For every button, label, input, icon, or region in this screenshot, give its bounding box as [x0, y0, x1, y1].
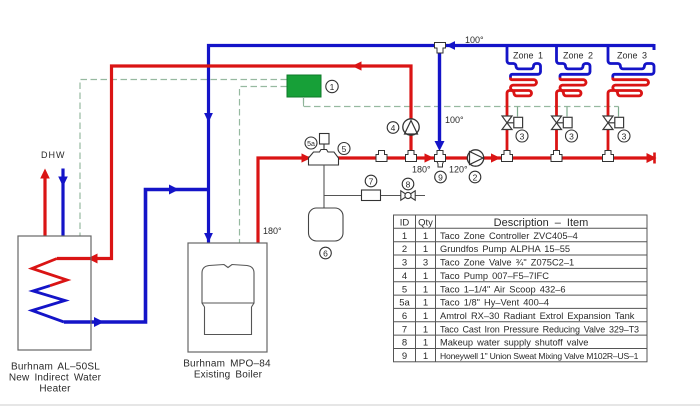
svg-text:Makeup water supply shutoff va: Makeup water supply shutoff valve — [440, 338, 588, 348]
pipe: zone 3 blue drop and coil (blue half) — [608, 44, 654, 78]
pipe: blue drop to mixing valve (100 deg) — [438, 47, 441, 143]
pipe: DHW hot out (red) — [43, 177, 46, 236]
pipe: zone 2 coil (red half) and drop to valve — [557, 78, 587, 157]
svg-text:5: 5 — [402, 284, 407, 295]
svg-text:6: 6 — [402, 311, 407, 322]
svg-text:Zone 1: Zone 1 — [513, 51, 543, 61]
device: air scoop U5 — [309, 150, 339, 166]
svg-text:9: 9 — [438, 172, 443, 182]
valve: zone valve 1 body — [502, 116, 523, 130]
wire: controller to boiler (dashed green) — [240, 87, 288, 244]
arrow: right out of indirect tank — [94, 317, 104, 327]
vessel: boiler section interior — [202, 265, 254, 335]
arrow: left into indirect tank — [88, 254, 98, 264]
callout: circled 2 — [469, 171, 481, 183]
svg-text:Taco Cast Iron Pressure Reduci: Taco Cast Iron Pressure Reducing Valve 3… — [440, 324, 639, 334]
arrow: DHW cold down — [58, 177, 68, 187]
pipe: DHW cold in (blue) — [61, 169, 64, 237]
pipe: red supply main from boiler (180 deg) — [258, 158, 655, 243]
svg-text:1: 1 — [423, 298, 428, 309]
wire: controller to indirect heater sensor (dashed green) — [80, 80, 287, 237]
fitting: zone 3 tee on supply main — [603, 151, 614, 162]
svg-text:1: 1 — [423, 231, 428, 242]
arrow: right into air scoop — [302, 153, 312, 162]
svg-text:1: 1 — [423, 284, 428, 295]
svg-text:1: 1 — [423, 338, 428, 349]
callout: circled 9 — [435, 171, 447, 183]
callout: circled 1 — [326, 80, 338, 92]
pipe: zone 2 blue drop and coil (blue half) — [557, 44, 591, 78]
fitting: union tee on supply main (left) — [376, 151, 387, 162]
pipe: zone 3 coil (red half) and drop to valve — [608, 78, 649, 157]
fitting: zone 2 tee on supply main — [551, 151, 562, 162]
callout: circled 3 (zone 3) — [618, 130, 630, 142]
pipe: blue return main (100 deg) along top — [209, 46, 655, 244]
callout: circled 3 (zone 1) — [516, 130, 528, 142]
svg-text:120°: 120° — [449, 165, 468, 175]
device: pressure reducing valve U7 — [362, 190, 381, 201]
device: Hy-Vent 5a stem — [323, 144, 325, 150]
svg-text:7: 7 — [369, 176, 374, 186]
svg-text:New Indirect Water: New Indirect Water — [9, 373, 102, 384]
table column: ID values — [399, 231, 410, 362]
svg-text:3: 3 — [423, 258, 428, 269]
svg-text:3: 3 — [402, 258, 407, 269]
svg-text:2: 2 — [402, 244, 407, 255]
svg-text:Grundfos Pump ALPHA 15–55: Grundfos Pump ALPHA 15–55 — [440, 244, 570, 254]
wire: controller stub down — [303, 97, 305, 107]
svg-text:1: 1 — [423, 311, 428, 322]
controller: Taco zone controller U1 (green box) — [287, 75, 321, 97]
arrow: right after pump 2 — [491, 153, 501, 162]
svg-text:5a: 5a — [399, 298, 410, 309]
pump: P4 Taco 007 on indirect riser — [403, 119, 419, 135]
arrow: right toward boiler return — [169, 185, 179, 195]
pipe: expansion tank / makeup water line — [324, 165, 425, 208]
svg-text:3: 3 — [520, 131, 525, 141]
arrow: flow left on blue main — [446, 41, 455, 50]
valve: zone valve 2 body — [552, 116, 573, 130]
svg-text:180°: 180° — [263, 226, 282, 236]
decorative: faint bottom rule — [0, 404, 700, 406]
svg-text:5: 5 — [342, 144, 347, 154]
device: expansion tank U6 — [309, 208, 344, 241]
svg-text:Taco Pump 007–F5–7IFC: Taco Pump 007–F5–7IFC — [440, 271, 549, 281]
svg-text:6: 6 — [323, 248, 328, 258]
callout: circled 8 — [402, 178, 414, 190]
coil: indirect heater red zigzag — [32, 259, 67, 286]
arrow: down mid boiler return — [204, 113, 213, 123]
svg-text:3: 3 — [622, 131, 627, 141]
svg-text:4: 4 — [391, 123, 396, 133]
valve: mixing valve U9 body on main — [435, 151, 446, 168]
pipe: zone 1 blue drop and coil (blue half) — [507, 44, 541, 78]
svg-text:Qty: Qty — [418, 218, 433, 229]
callout: circled 4 — [387, 122, 399, 134]
wire: drop to zone valve 1 actuator — [517, 107, 519, 117]
wire: drop to zone valve 2 actuator — [566, 107, 568, 117]
callout: circled 6 — [320, 247, 332, 259]
svg-text:4: 4 — [402, 271, 407, 282]
svg-text:Taco Zone Controller ZVC405–4: Taco Zone Controller ZVC405–4 — [440, 231, 578, 241]
table column: descriptions — [440, 231, 639, 361]
svg-text:5a: 5a — [307, 141, 315, 148]
svg-text:9: 9 — [402, 351, 407, 362]
device: Hy-Vent 5a body — [320, 134, 330, 145]
svg-text:100°: 100° — [445, 115, 464, 125]
arrow: down into mixing valve — [435, 141, 445, 151]
svg-text:1: 1 — [423, 244, 428, 255]
table: bill of materials — [394, 215, 648, 362]
svg-text:Burhnam MPO–84: Burhnam MPO–84 — [183, 359, 271, 370]
svg-text:1: 1 — [423, 324, 428, 335]
vessel: indirect water heater tank — [18, 236, 91, 350]
wire: drop to zone valve 3 actuator — [618, 107, 620, 117]
valve: makeup water shutoff U8 — [401, 191, 415, 200]
svg-text:Taco Zone Valve ¾" Z075C2–1: Taco Zone Valve ¾" Z075C2–1 — [440, 258, 574, 268]
svg-text:Amtrol RX–30 Radiant Extrol Ex: Amtrol RX–30 Radiant Extrol Expansion Ta… — [440, 311, 635, 321]
valve: zone valve 3 body — [603, 116, 624, 130]
svg-text:180°: 180° — [412, 165, 431, 175]
arrow: right into mixing valve — [425, 153, 435, 162]
arrow: left on top red line — [352, 61, 362, 70]
table column: Qty values — [423, 231, 428, 362]
svg-text:1: 1 — [423, 271, 428, 282]
svg-text:Taco 1/8" Hy–Vent 400–4: Taco 1/8" Hy–Vent 400–4 — [440, 298, 549, 308]
svg-text:Taco 1–1/4" Air Scoop 432–6: Taco 1–1/4" Air Scoop 432–6 — [440, 284, 566, 294]
callout: circled 5 — [338, 143, 350, 155]
svg-text:Burhnam AL–50SL: Burhnam AL–50SL — [11, 362, 100, 373]
svg-text:2: 2 — [473, 172, 478, 182]
fitting: tee under pump 4 riser — [406, 151, 417, 162]
callout: circled 5a — [305, 137, 317, 149]
svg-text:Zone 2: Zone 2 — [563, 51, 593, 61]
wire: controller to zone valves (dashed green) — [304, 97, 619, 107]
tick: supply main end cap — [653, 153, 656, 164]
svg-text:Existing Boiler: Existing Boiler — [194, 370, 263, 381]
svg-text:Heater: Heater — [39, 384, 71, 395]
callout: circled 7 — [365, 175, 377, 187]
pipe: indirect heater return, tank to boiler return line — [64, 190, 207, 323]
svg-text:3: 3 — [569, 131, 574, 141]
arrow: DHW hot up — [40, 169, 50, 179]
svg-text:7: 7 — [402, 324, 407, 335]
svg-text:1: 1 — [423, 351, 428, 362]
fitting: tee on blue main at 100 deg drop — [435, 43, 446, 54]
svg-text:8: 8 — [402, 338, 407, 349]
callout: circled 3 (zone 2) — [566, 130, 578, 142]
pipe: end tick of blue main — [653, 44, 656, 50]
svg-text:8: 8 — [406, 179, 411, 189]
svg-text:ID: ID — [400, 218, 410, 229]
vessel: existing boiler outline — [188, 243, 267, 352]
arrow: supply main end — [647, 153, 657, 163]
pump: P2 Grundfos circulator on main — [467, 150, 483, 166]
svg-text:DHW: DHW — [41, 150, 66, 160]
svg-text:Honeywell 1" Union Sweat Mixin: Honeywell 1" Union Sweat Mixing Valve M1… — [440, 351, 639, 361]
svg-text:1: 1 — [402, 231, 407, 242]
svg-text:1: 1 — [330, 82, 335, 92]
pipe: zone 1 coil (red half) and drop to valve — [507, 78, 537, 157]
svg-text:100°: 100° — [465, 35, 484, 45]
pipe: red riser through pump 4 and top line to indirect heater — [57, 66, 411, 259]
svg-text:Zone 3: Zone 3 — [617, 51, 647, 61]
arrow: down into boiler — [204, 233, 213, 243]
coil: indirect heater blue zigzag — [32, 286, 65, 322]
fitting: zone 1 tee on supply main — [502, 151, 513, 162]
svg-text:Description – Item: Description – Item — [494, 217, 589, 229]
